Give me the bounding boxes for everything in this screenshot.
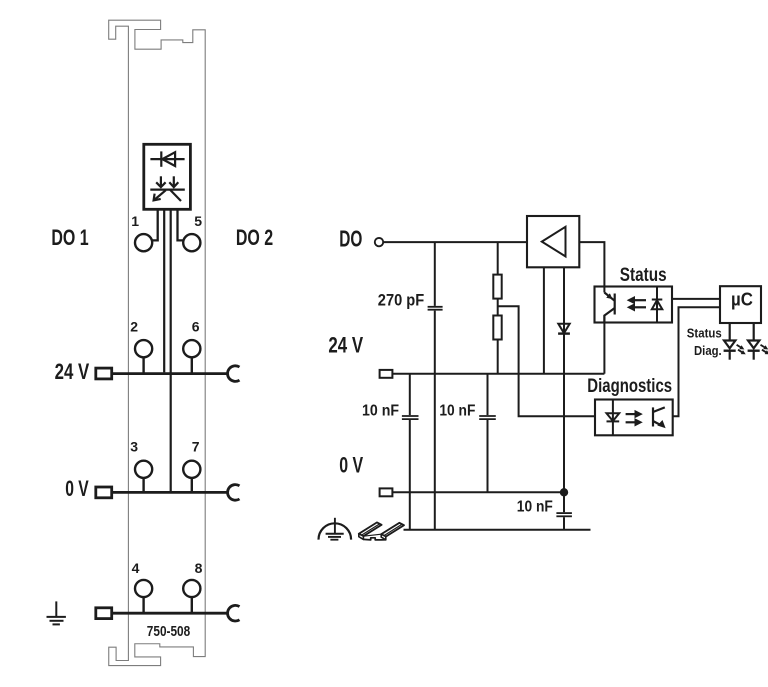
wire block to pin 1 [152,209,158,240]
stub pin3 to 0V rail [142,478,144,493]
svg-text:Status: Status [687,326,722,341]
pin 3 [135,461,152,478]
0 V rail schematic [392,491,564,493]
ground terminal square [96,608,112,619]
diode symbol in LED block [150,151,184,166]
svg-text:1: 1 [131,213,139,229]
capacitor 10 nF no.1 wire [409,374,411,415]
status diode [652,287,663,323]
earth rail [404,529,591,531]
wire amp to 24V rail [543,267,545,373]
svg-text:10 nF: 10 nF [439,403,475,420]
pin 4 [135,580,152,597]
resistor R2 [497,298,499,316]
microcontroller uC box [720,286,761,323]
svg-text:4: 4 [132,560,140,576]
svg-text:0 V: 0 V [339,453,363,478]
svg-text:270 pF: 270 pF [378,290,424,309]
pin 5 [183,234,200,251]
svg-text:5: 5 [194,213,202,229]
ground power jumper contact arc [228,605,240,621]
24 V rail wire [112,372,227,375]
0 V rail wire [112,491,227,494]
svg-text:DO 2: DO 2 [236,225,273,250]
module 750-508 housing outline [109,20,206,665]
optocoupler Status box [595,287,673,323]
svg-text:10 nF: 10 nF [517,498,553,515]
pin 1 [135,234,152,251]
diagnostics LED [607,400,620,436]
svg-text:Diag.: Diag. [694,343,722,358]
pin 2 [135,340,152,357]
LED symbol in LED block [150,176,185,201]
op-amp output driver box [527,216,579,267]
wire uC to diagnostics [673,307,720,416]
svg-text:3: 3 [130,439,138,455]
svg-text:Diagnostics: Diagnostics [587,376,672,397]
stub pin4 to ground rail [142,597,144,613]
resistor R1 [497,242,499,275]
wire status to uC [672,298,720,300]
DIN rail symbol [359,522,404,540]
wire through status box to 24V rail [603,316,605,374]
svg-text:0 V: 0 V [65,476,89,501]
svg-text:µC: µC [731,290,753,310]
capacitor 10 nF no.3 plates [556,512,572,514]
junction dot 0V/diode [560,488,568,496]
svg-text:7: 7 [192,439,200,455]
wire block to 24V rail [163,209,165,372]
ground symbol module [47,601,66,624]
pin 6 [183,340,200,357]
svg-text:Status: Status [620,265,667,286]
capacitor 10 nF no.1 plates [402,415,419,417]
pin 7 [183,461,200,478]
24 V terminal square schematic [380,370,393,378]
stub pin6 to 24V rail [191,357,193,373]
wire block to pin 5 [178,209,184,240]
svg-text:6: 6 [192,319,200,335]
capacitor 10 nF no.2 plates [479,415,496,417]
capacitor 270 pF wire top [434,242,436,306]
capacitor 10 nF no.3 wire bottom [563,517,565,530]
wire DO to amp [383,241,527,243]
0 V terminal square [96,487,112,498]
LED indicator block [144,144,191,209]
svg-text:750-508: 750-508 [147,623,190,640]
svg-text:8: 8 [195,560,203,576]
status phototransistor [604,293,614,323]
wire amp output to status [579,242,604,292]
optocoupler Diagnostics box [595,400,673,436]
diode D1 wire [563,267,565,492]
capacitor 10 nF no.3 wire top [563,492,565,512]
diagnostics arrows [626,411,642,426]
svg-text:10 nF: 10 nF [362,403,399,420]
op-amp triangle [542,227,566,257]
protective earth symbol [319,518,352,540]
diagnostics phototransistor [653,407,665,427]
0 V power jumper contact arc [228,485,240,501]
stub pin2 to 24V rail [142,357,144,373]
svg-text:24 V: 24 V [328,333,363,358]
wire R2 to 24V rail [497,340,499,374]
node DO terminal circle [375,238,383,246]
stub pin7 to 0V rail [191,478,193,493]
capacitor 270 pF plates [428,306,443,308]
svg-text:DO 1: DO 1 [51,225,88,250]
wire block to 0V rail [170,209,172,491]
24 V terminal square [96,368,112,379]
24 V rail schematic [392,373,604,375]
svg-text:2: 2 [130,319,138,335]
pin 8 [183,580,200,597]
24 V power jumper contact arc [228,366,240,382]
stub pin8 to ground rail [191,597,193,613]
0 V terminal square schematic [380,488,393,496]
svg-text:24 V: 24 V [55,359,90,384]
ground rail wire [112,612,227,615]
capacitor 10 nF no.2 wire [487,374,489,415]
svg-text:DO: DO [339,226,362,252]
wire resistor junction to diagnostics [498,306,595,416]
diode D1 [558,324,569,334]
LED Diag under uC [748,323,768,360]
status arrows [628,297,646,311]
capacitor 270 pF wire bottom to earth rail [434,311,436,530]
LED Status under uC [724,323,745,360]
